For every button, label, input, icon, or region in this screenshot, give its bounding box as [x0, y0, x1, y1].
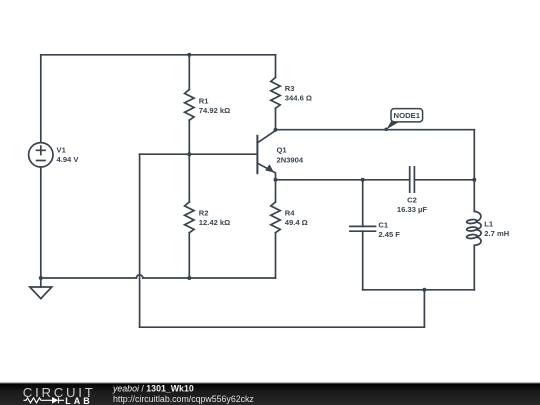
svg-text:Q1: Q1	[277, 146, 288, 155]
svg-text:344.6 Ω: 344.6 Ω	[285, 93, 312, 102]
wire C1 top lead	[362, 180, 364, 227]
svg-text:2N3904: 2N3904	[277, 155, 304, 164]
svg-text:74.92 kΩ: 74.92 kΩ	[199, 106, 230, 115]
junction dot bottom rail	[422, 288, 426, 292]
ground symbol triangle	[30, 287, 52, 299]
resistor R3	[271, 78, 280, 109]
wire ground rail right part	[143, 277, 276, 279]
wire C1 bottom lead	[362, 231, 364, 290]
transistor Q1 base bar	[256, 136, 258, 173]
voltage source V1 circle	[29, 143, 53, 167]
svg-text:12.42 kΩ: 12.42 kΩ	[199, 218, 230, 227]
wire R3 top lead	[275, 55, 277, 78]
wire bottom feedback rail	[140, 326, 425, 328]
wire V1 bottom lead	[40, 167, 42, 278]
svg-text:LAB: LAB	[65, 396, 93, 405]
junction dot ground	[39, 276, 43, 280]
svg-text:http://circuitlab.com/cqpw556y: http://circuitlab.com/cqpw556y62ckz	[113, 394, 254, 404]
wire top rail	[41, 54, 276, 56]
footer bar	[0, 382, 540, 384]
wire right column (collector rail down to L1)	[473, 130, 475, 212]
svg-text:4.94 V: 4.94 V	[57, 155, 80, 164]
capacitor C2	[410, 167, 415, 192]
ground symbol stem	[40, 278, 42, 287]
wire R1 bottom to R2 top	[188, 120, 190, 202]
svg-text:R4: R4	[285, 209, 295, 218]
wire left column top (V1 to top rail)	[40, 55, 42, 143]
svg-text:2.7 mH: 2.7 mH	[484, 229, 509, 238]
svg-text:16.33 µF: 16.33 µF	[397, 205, 427, 214]
svg-text:NODE1: NODE1	[394, 111, 421, 120]
resistor R4	[271, 202, 280, 233]
wire feedback left column	[139, 154, 141, 327]
wire collector rail	[276, 129, 475, 131]
transistor Q1 collector stroke	[257, 130, 275, 143]
junction dot emitter	[274, 178, 278, 182]
wire bottom junction drop	[423, 290, 425, 327]
wire R3 bottom lead	[275, 108, 277, 130]
footer logo resistor-diode glyph	[24, 397, 65, 403]
junction dot C1 top	[361, 178, 365, 182]
svg-text:C2: C2	[407, 195, 417, 204]
inductor L1	[474, 211, 481, 221]
wire emitter rail right (C2 right plate to right column)	[414, 179, 474, 181]
junction dot base rail / R1-R2	[187, 152, 191, 156]
wire R4 top lead	[275, 180, 277, 202]
svg-text:V1: V1	[57, 146, 67, 155]
V1 minus sign	[37, 160, 45, 162]
Q1 emitter arrowhead	[265, 164, 274, 172]
junction dot top rail / R1	[187, 53, 191, 57]
V1 plus sign	[37, 146, 45, 154]
wire emitter rail left (to C2 left plate)	[276, 179, 410, 181]
capacitor C1	[350, 226, 376, 231]
wire L1 bottom lead	[473, 245, 475, 289]
svg-text:L1: L1	[484, 220, 494, 229]
svg-text:yeaboi / 1301_Wk10: yeaboi / 1301_Wk10	[112, 384, 194, 394]
resistor R1	[185, 90, 194, 121]
junction dot R2 bottom	[187, 276, 191, 280]
wire R2 bottom lead	[188, 233, 190, 278]
svg-text:R3: R3	[285, 84, 295, 93]
wire ground rail left part	[41, 277, 137, 279]
wire R4 bottom lead	[275, 233, 277, 278]
wire C1-L1 bottom rail	[363, 289, 475, 291]
svg-text:R2: R2	[199, 209, 209, 218]
node flag NODE1	[384, 109, 422, 132]
wire R1 top lead	[188, 55, 190, 90]
svg-text:2.45 F: 2.45 F	[378, 230, 400, 239]
resistor R2	[185, 202, 194, 233]
svg-text:49.4 Ω: 49.4 Ω	[285, 218, 308, 227]
junction dot collector	[274, 128, 278, 132]
transistor Q1 emitter stroke	[257, 163, 275, 180]
wire base rail	[140, 153, 257, 155]
junction dot emitter rail right	[472, 178, 476, 182]
svg-text:C1: C1	[378, 221, 388, 230]
svg-text:R1: R1	[199, 96, 209, 105]
wire hop over feedback column	[136, 275, 142, 278]
